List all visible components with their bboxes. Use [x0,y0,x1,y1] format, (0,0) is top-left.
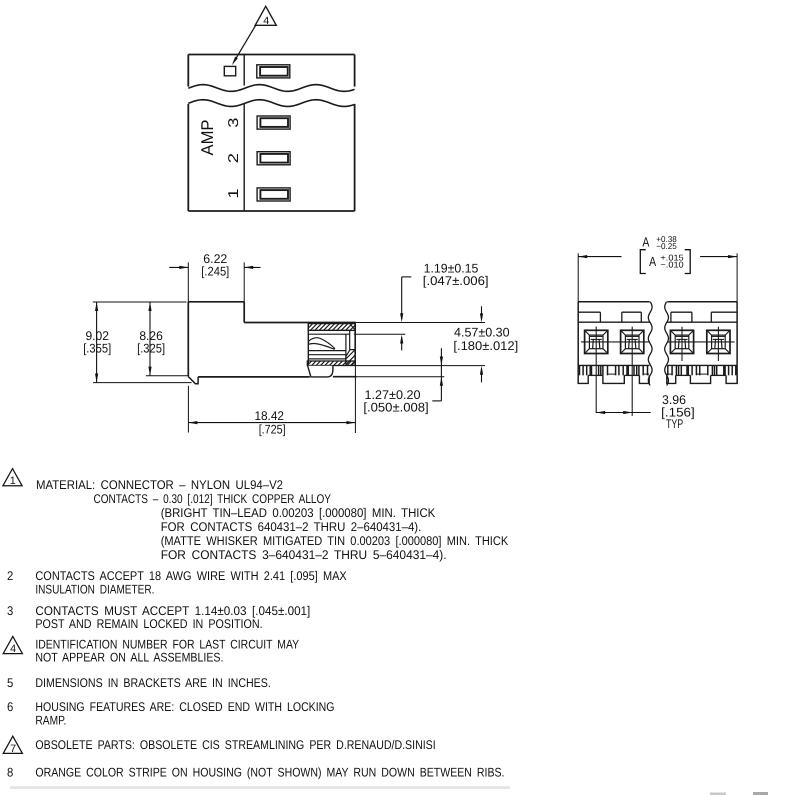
svg-text:[.355]: [.355] [83,341,111,355]
svg-text:1: 1 [226,188,242,198]
svg-text:DIMENSIONS IN BRACKETS ARE IN: DIMENSIONS IN BRACKETS ARE IN INCHES. [35,676,270,690]
svg-text:[.047±.006]: [.047±.006] [423,274,489,288]
svg-text:NOT APPEAR ON ALL ASSEMBLIES.: NOT APPEAR ON ALL ASSEMBLIES. [35,651,223,665]
svg-text:6: 6 [7,700,13,714]
svg-text:3: 3 [226,117,242,127]
svg-text:−0.25: −0.25 [656,241,677,251]
svg-text:(MATTE WHISKER MITIGATED TIN 0: (MATTE WHISKER MITIGATED TIN 0.00203 [.0… [161,534,509,548]
svg-text:5: 5 [7,676,13,690]
svg-text:HOUSING FEATURES ARE: CLOSED E: HOUSING FEATURES ARE: CLOSED END WITH LO… [35,700,334,714]
svg-text:A: A [649,254,656,269]
svg-text:ORANGE COLOR STRIPE ON HOUSING: ORANGE COLOR STRIPE ON HOUSING (NOT SHOW… [35,766,504,780]
svg-text:CONTACTS ACCEPT 18 AWG WIRE WI: CONTACTS ACCEPT 18 AWG WIRE WITH 2.41 [.… [35,569,347,583]
svg-text:CONTACTS – 0.30 [.012] THICK C: CONTACTS – 0.30 [.012] THICK COPPER ALLO… [94,492,332,506]
svg-text:2: 2 [226,153,242,163]
svg-text:AMP: AMP [198,120,217,156]
svg-text:INSULATION DIAMETER.: INSULATION DIAMETER. [35,583,154,597]
svg-text:4: 4 [10,643,16,655]
svg-text:8: 8 [7,766,13,780]
svg-text:RAMP.: RAMP. [35,714,66,728]
svg-text:[.725]: [.725] [259,422,286,436]
svg-text:−.010: −.010 [660,259,684,269]
svg-text:1: 1 [10,475,16,487]
svg-text:4.57±0.30: 4.57±0.30 [454,326,510,340]
svg-text:CONTACTS MUST ACCEPT 1.14±0.03: CONTACTS MUST ACCEPT 1.14±0.03 [.045±.00… [35,604,310,618]
svg-text:4: 4 [263,15,269,27]
svg-text:[.245]: [.245] [201,265,229,279]
svg-text:2: 2 [7,569,13,583]
svg-text:3: 3 [7,604,13,618]
svg-text:MATERIAL: CONNECTOR – NYLON UL: MATERIAL: CONNECTOR – NYLON UL94–V2 [36,478,283,492]
svg-text:A: A [642,234,649,249]
svg-text:18.42: 18.42 [254,409,284,423]
svg-text:FOR CONTACTS 640431–2 THRU 2–6: FOR CONTACTS 640431–2 THRU 2–640431–4). [161,520,422,534]
svg-text:TYP: TYP [666,417,683,431]
svg-text:[.180±.012]: [.180±.012] [453,339,518,353]
svg-text:IDENTIFICATION NUMBER FOR LAST: IDENTIFICATION NUMBER FOR LAST CIRCUIT M… [35,638,299,652]
svg-text:POST AND REMAIN LOCKED IN POSI: POST AND REMAIN LOCKED IN POSITION. [35,617,262,631]
svg-text:[.325]: [.325] [137,341,165,355]
svg-text:(BRIGHT TIN–LEAD 0.00203 [.000: (BRIGHT TIN–LEAD 0.00203 [.000080] MIN. … [161,506,436,520]
svg-text:OBSOLETE PARTS: OBSOLETE CIS S: OBSOLETE PARTS: OBSOLETE CIS STREAMLININ… [35,738,435,752]
svg-text:7: 7 [10,743,16,755]
svg-text:FOR CONTACTS 3–640431–2 THRU 5: FOR CONTACTS 3–640431–2 THRU 5–640431–4)… [161,548,447,562]
svg-text:[.050±.008]: [.050±.008] [363,401,428,415]
